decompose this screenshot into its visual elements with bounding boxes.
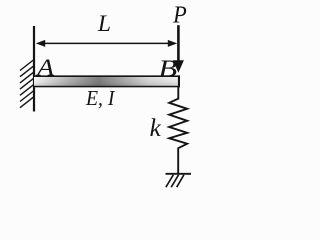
ground line — [166, 173, 192, 175]
dimension arrowhead left — [36, 40, 45, 47]
beam top edge — [34, 75, 180, 77]
svg-text:A: A — [35, 55, 55, 82]
dimension line for L — [42, 42, 170, 44]
beam bottom edge — [34, 86, 180, 88]
force P arrowhead — [173, 60, 184, 73]
force P arrow shaft — [177, 25, 180, 62]
svg-text:k: k — [150, 115, 162, 142]
dimension arrowhead right — [168, 40, 177, 47]
svg-text:P: P — [172, 1, 187, 28]
spring k — [169, 87, 187, 173]
ground hatching — [166, 175, 184, 187]
beam AB (E, I) — [34, 75, 180, 87]
svg-text:E, I: E, I — [85, 86, 115, 110]
wall vertical line (fixed support at A) — [33, 26, 35, 112]
svg-text:B: B — [158, 57, 177, 83]
beam right edge — [178, 75, 180, 87]
wall hatching — [20, 60, 34, 108]
svg-text:L: L — [97, 11, 111, 37]
